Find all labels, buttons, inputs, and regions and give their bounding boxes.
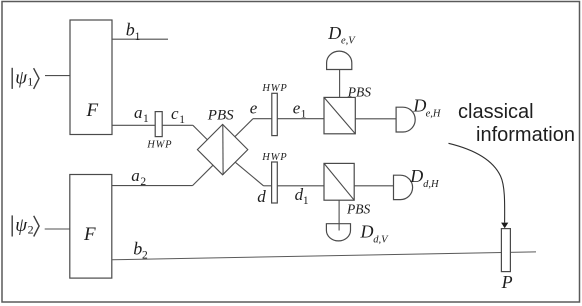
svg-text:PBS: PBS xyxy=(207,108,234,124)
svg-text:HWP: HWP xyxy=(146,140,172,151)
wire a2 xyxy=(112,165,213,185)
wire to detector DdH xyxy=(354,185,393,187)
svg-text:D: D xyxy=(409,166,423,186)
svg-text:1: 1 xyxy=(303,195,309,207)
svg-text:classical: classical xyxy=(458,101,534,123)
wire to detector DdV xyxy=(338,200,340,230)
box F1 xyxy=(70,20,112,135)
svg-text:HWP: HWP xyxy=(261,83,287,94)
svg-text:e,V: e,V xyxy=(341,36,356,47)
half-wave plate HWP (a1 path) xyxy=(155,112,162,137)
wire c1 to PBS diamond xyxy=(193,125,208,140)
svg-text:b: b xyxy=(133,239,142,259)
PBS diamond beam splitter xyxy=(197,124,247,174)
wire c1 xyxy=(162,124,193,126)
svg-text:a: a xyxy=(131,166,140,185)
svg-text:2: 2 xyxy=(28,222,34,236)
half-wave plate HWP (d path) xyxy=(272,162,278,203)
svg-text:d,V: d,V xyxy=(373,234,389,245)
wire d xyxy=(235,162,271,186)
half-wave plate HWP (e path) xyxy=(272,93,278,135)
wire psi1 input xyxy=(45,75,70,77)
svg-text:1: 1 xyxy=(135,31,141,43)
wire e1 xyxy=(277,118,324,120)
svg-text:PBS: PBS xyxy=(346,202,370,217)
svg-text:e: e xyxy=(293,99,301,118)
svg-text:2: 2 xyxy=(140,176,146,188)
svg-text:1: 1 xyxy=(301,108,307,120)
wire psi2 input xyxy=(45,228,70,230)
ket psi1 xyxy=(12,68,39,89)
phase shifter P plate xyxy=(501,229,510,272)
svg-text:PBS: PBS xyxy=(347,85,371,100)
svg-text:F: F xyxy=(83,224,96,245)
detector D_dV xyxy=(326,224,350,241)
wire e xyxy=(235,119,272,137)
wire b1 xyxy=(112,38,168,40)
PBS cube (e path) xyxy=(324,97,355,133)
svg-text:D: D xyxy=(360,222,374,242)
svg-text:P: P xyxy=(501,272,513,292)
svg-text:c: c xyxy=(171,104,179,123)
svg-text:2: 2 xyxy=(142,250,148,262)
wire b2 xyxy=(112,252,536,260)
PBS cube (d path) xyxy=(324,163,354,200)
svg-text:a: a xyxy=(134,103,143,122)
detector D_dH xyxy=(394,175,413,199)
wire to detector DeV xyxy=(339,70,341,98)
svg-text:1: 1 xyxy=(179,114,185,126)
wire to detector DeH xyxy=(355,118,396,120)
ket psi2 xyxy=(12,215,39,236)
classical information arrow xyxy=(449,143,505,222)
svg-text:information: information xyxy=(476,124,575,146)
svg-text:e,H: e,H xyxy=(426,108,442,119)
svg-text:d: d xyxy=(257,187,266,206)
svg-text:D: D xyxy=(412,96,426,116)
svg-text:F: F xyxy=(86,100,99,121)
svg-text:1: 1 xyxy=(143,113,149,125)
detector D_eH xyxy=(396,107,415,132)
svg-text:HWP: HWP xyxy=(261,152,287,163)
detector D_eV xyxy=(327,51,352,69)
svg-text:b: b xyxy=(126,20,135,40)
wire d1 xyxy=(277,185,324,187)
svg-text:ψ: ψ xyxy=(15,215,28,236)
svg-text:e: e xyxy=(250,99,258,118)
wire a1 xyxy=(112,124,155,126)
svg-text:d,H: d,H xyxy=(423,179,440,190)
svg-text:1: 1 xyxy=(27,75,33,89)
svg-text:D: D xyxy=(327,23,341,43)
box F2 xyxy=(70,175,112,279)
